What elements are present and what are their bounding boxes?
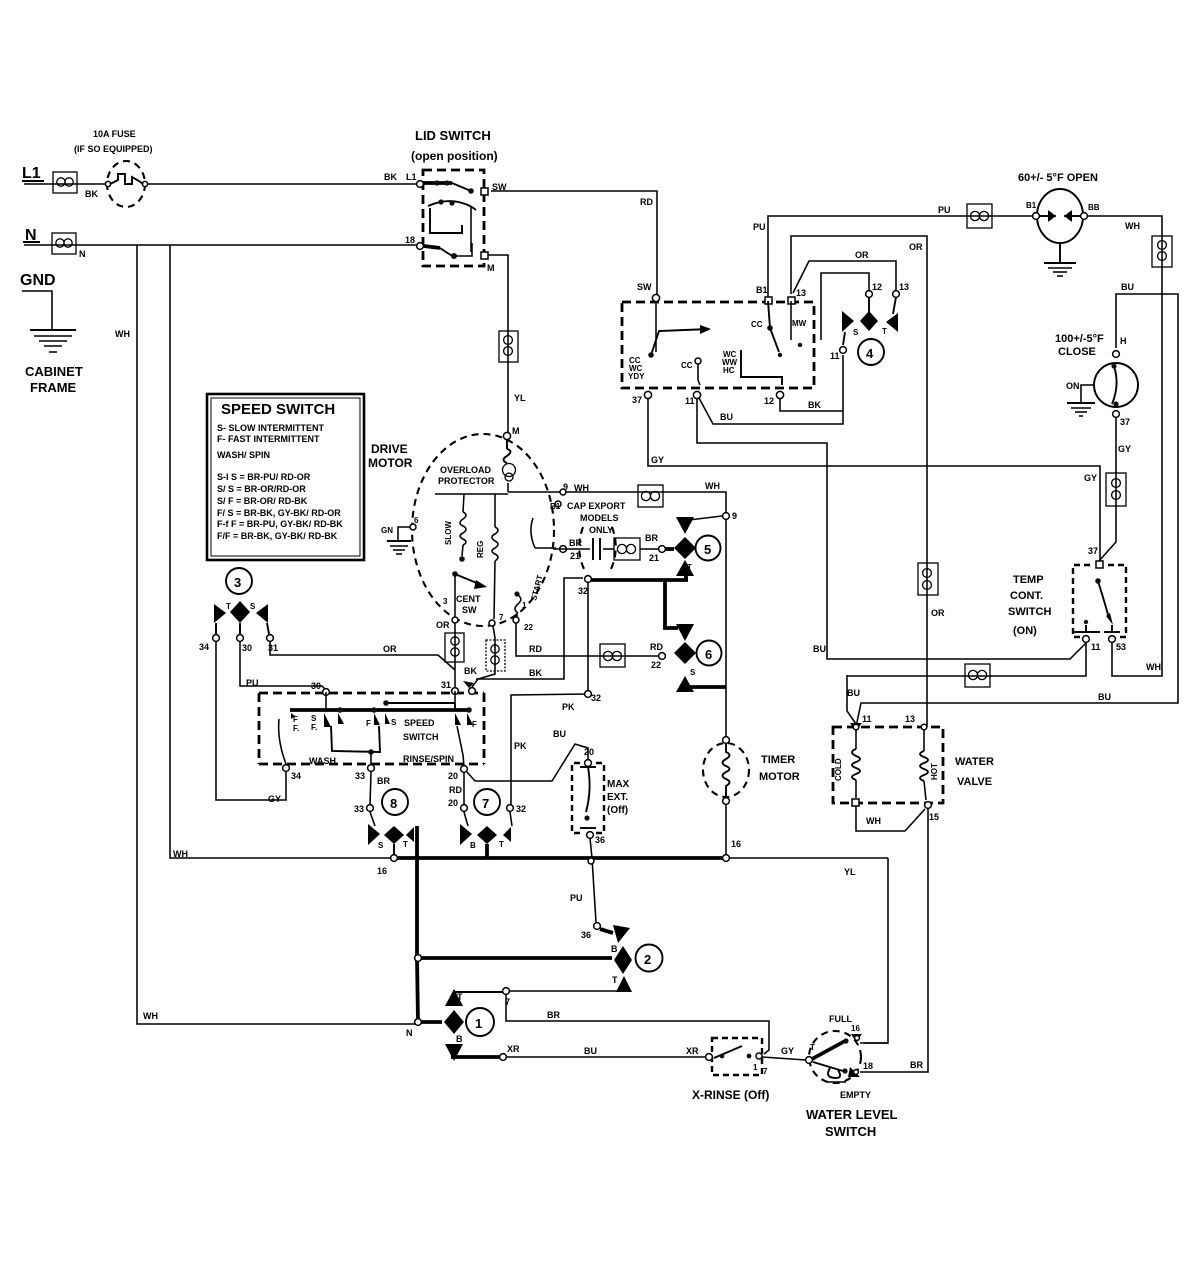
water valve cold coil	[834, 730, 860, 798]
node 22 at cluster 6	[659, 653, 666, 660]
drive motor winding bus	[435, 493, 508, 495]
svg-text:20: 20	[584, 747, 594, 757]
node 20 speed switch	[448, 766, 467, 781]
svg-text:7: 7	[482, 796, 489, 811]
wire OR motor to speed switch 31	[454, 623, 456, 690]
drive motor ground and terminal 6	[381, 516, 419, 554]
svg-text:SWITCH: SWITCH	[1008, 606, 1051, 618]
svg-text:F-f F = BR-PU, GY-BK/ RD-BK: F-f F = BR-PU, GY-BK/ RD-BK	[217, 519, 343, 529]
svg-text:SWITCH: SWITCH	[825, 1124, 876, 1139]
svg-text:RD: RD	[650, 642, 663, 652]
speed switch legend box	[207, 394, 364, 560]
node 34 speed switch	[283, 765, 301, 781]
svg-text:13: 13	[905, 714, 915, 724]
svg-text:SW: SW	[462, 605, 477, 615]
node 32b on PK wire	[585, 691, 592, 698]
svg-text:SWITCH: SWITCH	[403, 732, 439, 742]
svg-text:WASH: WASH	[309, 756, 336, 766]
svg-text:BR: BR	[547, 1010, 560, 1020]
svg-text:11: 11	[685, 396, 695, 406]
svg-text:LID SWITCH: LID SWITCH	[415, 128, 491, 143]
water valve bottom terminals	[852, 799, 939, 822]
svg-text:WH: WH	[115, 329, 130, 339]
terminal SW timer switch	[637, 282, 660, 302]
svg-text:(ON): (ON)	[1013, 625, 1037, 637]
fuse 10A (dashed circle)	[74, 129, 153, 207]
node F speed switch	[463, 681, 475, 694]
water valve enclosure (dashed)	[833, 727, 943, 803]
svg-text:7: 7	[499, 613, 504, 622]
svg-text:MW: MW	[792, 319, 807, 328]
svg-text:6: 6	[705, 647, 712, 662]
svg-text:CONT.: CONT.	[1010, 590, 1043, 602]
thermostat 60F OPEN	[1018, 172, 1100, 243]
node 9 on WH wire	[560, 489, 566, 495]
node L1	[22, 165, 44, 182]
label circled 6	[697, 641, 722, 666]
wire GY 100F to temp switch	[1084, 418, 1131, 561]
svg-text:13: 13	[899, 282, 909, 292]
node 13 cluster 4	[893, 282, 909, 297]
svg-text:S: S	[250, 602, 256, 611]
speed switch enclosure (dashed)	[259, 693, 484, 764]
node 20b	[461, 805, 468, 826]
lid switch label	[411, 128, 498, 163]
wire BK from terminal 12	[780, 399, 843, 411]
wire WH left vertical	[115, 245, 418, 1024]
svg-text:BK: BK	[464, 666, 477, 676]
node 32 thick link	[578, 574, 688, 628]
svg-text:PU: PU	[753, 222, 766, 232]
svg-text:6: 6	[414, 516, 419, 525]
wire BR 33 down	[354, 772, 390, 814]
svg-text:ONLY: ONLY	[589, 525, 613, 535]
wire OR from terminal 13 up over to water valve	[791, 236, 945, 727]
svg-text:S: S	[683, 523, 689, 532]
svg-text:L1: L1	[22, 165, 41, 182]
svg-text:WASH/ SPIN: WASH/ SPIN	[217, 450, 270, 460]
svg-text:BU: BU	[553, 729, 566, 739]
svg-text:T: T	[612, 975, 618, 985]
svg-text:32: 32	[591, 693, 601, 703]
svg-text:CC: CC	[751, 320, 763, 329]
svg-text:GND: GND	[20, 272, 56, 289]
connector cluster 2	[600, 925, 632, 992]
svg-text:SLOW: SLOW	[444, 521, 453, 545]
bus WH thick	[394, 856, 888, 860]
svg-text:OR: OR	[855, 250, 869, 260]
wire BU water valve 11 branch	[847, 675, 860, 724]
wire PK node 32 down to cluster 7	[511, 583, 601, 808]
svg-text:30: 30	[242, 643, 252, 653]
svg-text:BK: BK	[85, 189, 98, 199]
svg-text:18: 18	[863, 1061, 873, 1071]
svg-text:3: 3	[443, 597, 448, 606]
wire GY x-rinse to water level switch	[762, 1046, 806, 1060]
wire PU from timer switch B1 to thermostat	[753, 205, 1033, 297]
node 33 speed switch	[355, 765, 374, 781]
ground GND cabinet frame	[20, 272, 83, 395]
terminal 13 timer switch	[788, 288, 806, 304]
svg-text:T: T	[882, 327, 887, 336]
svg-text:T: T	[457, 992, 463, 1002]
svg-text:33: 33	[355, 771, 365, 781]
svg-text:37: 37	[1088, 546, 1098, 556]
svg-text:1: 1	[475, 1016, 482, 1031]
temp control switch enclosure	[1073, 565, 1126, 637]
svg-text:GY: GY	[781, 1046, 794, 1056]
connector cluster 7	[460, 824, 511, 858]
connector cluster 6	[674, 624, 696, 692]
junction node 16 left	[377, 855, 397, 876]
svg-text:MODELS: MODELS	[580, 513, 619, 523]
overload protector	[438, 440, 516, 492]
node 9 right (to cluster 5)	[723, 511, 737, 521]
svg-text:34: 34	[199, 642, 209, 652]
wire XR from cluster 1 B	[451, 1044, 706, 1060]
drive motor cent sw	[443, 571, 487, 617]
node 11 cluster 4	[830, 347, 846, 361]
connector cluster 5	[674, 516, 722, 576]
svg-text:16: 16	[731, 839, 741, 849]
svg-text:HOT: HOT	[930, 763, 939, 780]
svg-text:B: B	[456, 1034, 463, 1044]
temp control switch label	[1008, 574, 1051, 637]
svg-text:22: 22	[651, 660, 661, 670]
label circled 3	[226, 568, 252, 594]
connector on OR wire	[918, 563, 938, 595]
svg-text:B1: B1	[756, 285, 768, 295]
wire BU terminal 11 loop to node 11	[699, 355, 843, 424]
svg-text:S: S	[690, 668, 696, 677]
svg-text:COLD: COLD	[834, 758, 843, 781]
wire BR water valve 15 to water level switch	[860, 808, 928, 1072]
svg-text:FRAME: FRAME	[30, 380, 77, 395]
wire YL bus to water level switch	[844, 858, 888, 1043]
wire BU right loop to water valve	[856, 282, 1178, 727]
drive motor slow winding	[444, 494, 466, 562]
water level switch	[806, 1014, 898, 1139]
svg-text:B: B	[470, 841, 476, 850]
svg-text:OR: OR	[383, 644, 397, 654]
svg-text:100+/-5°F: 100+/-5°F	[1055, 333, 1104, 345]
wire BU 20 to max ext	[467, 729, 588, 781]
svg-text:FULL: FULL	[829, 1014, 852, 1024]
svg-text:WH: WH	[1146, 662, 1161, 672]
svg-text:OR: OR	[909, 242, 923, 252]
svg-text:T: T	[683, 629, 688, 638]
svg-text:12: 12	[872, 282, 882, 292]
connector cluster 8	[368, 824, 414, 857]
water valve terminal 11	[850, 714, 872, 731]
junction node 16 timer	[723, 839, 741, 861]
wire N white	[24, 245, 418, 259]
svg-text:3: 3	[234, 575, 241, 590]
svg-text:15: 15	[929, 812, 939, 822]
svg-text:2: 2	[644, 952, 651, 967]
svg-text:F.: F.	[311, 723, 317, 732]
speed switch wash blade	[279, 719, 464, 766]
svg-text:CENT: CENT	[456, 594, 481, 604]
svg-text:TIMER: TIMER	[761, 754, 795, 766]
svg-text:PK: PK	[562, 702, 575, 712]
svg-text:CAP EXPORT: CAP EXPORT	[567, 501, 626, 511]
svg-text:32: 32	[516, 804, 526, 814]
connector on PU wire	[967, 204, 992, 228]
svg-text:T: T	[499, 840, 504, 849]
thermostat 100F CLOSE	[1055, 333, 1138, 427]
svg-text:36: 36	[581, 930, 591, 940]
svg-text:ON: ON	[1066, 381, 1080, 391]
terminal 11 timer switch	[685, 391, 701, 406]
wire GY 34 loop	[216, 641, 286, 804]
node N	[23, 227, 40, 244]
svg-text:OVERLOAD: OVERLOAD	[440, 465, 492, 475]
wire temp switch 11 to water valve 11	[847, 643, 1086, 676]
terminal 12 timer switch	[764, 391, 784, 406]
wire RD motor 22 to cluster 6	[516, 623, 663, 670]
svg-text:F: F	[366, 719, 371, 728]
label circled 4	[858, 339, 884, 365]
cap export label	[567, 501, 626, 535]
node 36 max ext	[587, 832, 605, 845]
svg-text:34: 34	[291, 771, 301, 781]
svg-text:OR: OR	[436, 620, 450, 630]
svg-text:F/F = BR-BK, GY-BK/ RD-BK: F/F = BR-BK, GY-BK/ RD-BK	[217, 531, 338, 541]
svg-text:1: 1	[522, 601, 527, 610]
svg-text:8: 8	[390, 796, 397, 811]
svg-text:BU: BU	[813, 644, 826, 654]
terminal B1 timer switch	[756, 285, 772, 304]
label circled 8	[382, 789, 408, 815]
svg-text:GY: GY	[1118, 444, 1131, 454]
svg-text:11: 11	[862, 714, 872, 724]
connector on capacitor wire	[614, 533, 659, 563]
drive motor terminal B1	[550, 501, 561, 511]
wire PU 30 to speed switch	[240, 641, 326, 690]
svg-text:SPEED: SPEED	[404, 718, 435, 728]
wire PU max ext to cluster 2	[570, 838, 596, 922]
wire L1 black	[24, 172, 418, 184]
wire terminal 11 down to BU line	[697, 399, 1086, 659]
node 31 cluster 3	[267, 635, 278, 653]
wire RD 20 down	[448, 773, 464, 808]
connector on BK motor wire (dotted)	[486, 640, 505, 671]
node 21 at cluster 5	[659, 546, 674, 553]
svg-text:L1: L1	[406, 172, 417, 182]
wire GY from timer switch 37	[648, 399, 1100, 561]
timer main switch enclosure (dashed)	[622, 302, 814, 388]
drive motor enclosure (dashed ellipse)	[412, 434, 554, 626]
x-rinse label	[692, 1088, 769, 1102]
svg-text:22: 22	[524, 623, 533, 632]
svg-text:4: 4	[866, 346, 874, 361]
svg-text:SW: SW	[637, 282, 652, 292]
max ext switch contacts	[580, 747, 596, 828]
svg-text:F- FAST INTERMITTENT: F- FAST INTERMITTENT	[217, 434, 320, 444]
lid switch contacts	[405, 180, 507, 273]
node 36 cluster 2	[581, 923, 600, 940]
svg-text:VALVE: VALVE	[957, 776, 992, 788]
svg-text:PU: PU	[570, 893, 583, 903]
wire WH water valve loop	[856, 806, 925, 831]
speed switch common bar	[290, 691, 472, 713]
svg-text:PROTECTOR: PROTECTOR	[438, 476, 495, 486]
svg-text:CC: CC	[681, 361, 693, 370]
wire thick node N to cluster 2	[415, 955, 612, 962]
svg-text:1: 1	[753, 1063, 758, 1072]
svg-text:WH: WH	[173, 849, 188, 859]
svg-text:9: 9	[732, 511, 737, 521]
svg-text:START: START	[529, 574, 544, 602]
svg-text:WH: WH	[705, 481, 720, 491]
svg-text:BU: BU	[720, 412, 733, 422]
svg-text:BB: BB	[1088, 203, 1100, 212]
wire thick cluster 8 T to node N	[417, 826, 418, 1022]
wire YL water level 16	[860, 1042, 888, 1044]
connector cluster 1	[444, 989, 464, 1061]
svg-text:T: T	[810, 1043, 815, 1052]
connector on WH wire	[638, 485, 663, 507]
water valve terminal 13	[905, 714, 927, 730]
svg-text:BK: BK	[384, 172, 397, 182]
connector on GY wire	[1106, 473, 1126, 506]
ground at 100F thermostat (ON)	[1066, 381, 1095, 416]
svg-text:BK: BK	[808, 400, 821, 410]
label circled 1	[466, 1008, 494, 1036]
wire RD lid switch to timer switch SW	[491, 191, 657, 294]
wire T1 to T junction	[454, 991, 503, 993]
drive motor bottom terminals	[436, 613, 533, 632]
svg-text:13: 13	[796, 288, 806, 298]
svg-text:RD: RD	[640, 197, 653, 207]
label circled 2	[636, 945, 663, 972]
svg-text:S/ F = BR-OR/ RD-BK: S/ F = BR-OR/ RD-BK	[217, 496, 308, 506]
svg-text:(IF SO EQUIPPED): (IF SO EQUIPPED)	[74, 144, 153, 154]
svg-text:S-I S = BR-PU/ RD-OR: S-I S = BR-PU/ RD-OR	[217, 472, 311, 482]
wire BK to node 32	[476, 578, 583, 679]
node 33b	[367, 805, 375, 826]
svg-text:GY: GY	[268, 794, 281, 804]
drive motor label	[368, 442, 413, 470]
svg-text:21: 21	[649, 553, 659, 563]
wire WH thermostat to right edge down	[1087, 216, 1162, 676]
svg-text:7: 7	[763, 1067, 768, 1076]
svg-text:WATER LEVEL: WATER LEVEL	[806, 1107, 898, 1122]
max ext switch enclosure	[572, 763, 604, 833]
svg-text:16: 16	[377, 866, 387, 876]
wire OR 31 to speed switch	[270, 641, 455, 670]
wire BR junction to x-rinse	[506, 994, 769, 1054]
svg-text:RD: RD	[529, 644, 542, 654]
x-rinse switch enclosure	[712, 1038, 762, 1075]
connector on RD wire	[600, 644, 625, 667]
svg-text:53: 53	[1116, 642, 1126, 652]
node 34 cluster 3	[199, 635, 219, 652]
svg-text:20: 20	[448, 771, 458, 781]
svg-text:36: 36	[595, 835, 605, 845]
svg-text:WATER: WATER	[955, 756, 994, 768]
svg-text:S: S	[391, 718, 397, 727]
svg-text:10A FUSE: 10A FUSE	[93, 129, 136, 139]
svg-text:5: 5	[704, 542, 711, 557]
svg-text:CABINET: CABINET	[25, 364, 83, 379]
speed switch poles and labels	[291, 713, 477, 742]
svg-text:MOTOR: MOTOR	[368, 456, 413, 470]
svg-text:11: 11	[1091, 642, 1101, 652]
svg-text:MOTOR: MOTOR	[759, 771, 800, 783]
svg-text:B1: B1	[550, 502, 561, 511]
svg-text:S- SLOW INTERMITTENT: S- SLOW INTERMITTENT	[217, 423, 324, 433]
svg-text:H: H	[1120, 336, 1127, 346]
drive motor start winding	[514, 518, 556, 617]
svg-text:X-RINSE (Off): X-RINSE (Off)	[692, 1088, 769, 1102]
svg-text:21: 21	[570, 551, 580, 561]
svg-text:OR: OR	[931, 608, 945, 618]
wire BK motor 7 to speed switch F	[464, 626, 495, 687]
svg-text:M: M	[487, 263, 495, 273]
svg-text:WH: WH	[1125, 221, 1140, 231]
node 32 cluster 7	[507, 804, 526, 826]
svg-text:BR: BR	[645, 533, 658, 543]
svg-text:60+/- 5°F OPEN: 60+/- 5°F OPEN	[1018, 172, 1098, 184]
svg-text:BU: BU	[1098, 692, 1111, 702]
svg-text:S/ S = BR-OR/RD-OR: S/ S = BR-OR/RD-OR	[217, 484, 306, 494]
svg-text:(Off): (Off)	[607, 805, 628, 816]
svg-text:BK: BK	[529, 668, 542, 678]
x-rinse switch	[706, 1046, 768, 1076]
node 30 cluster 3	[237, 635, 252, 653]
svg-text:PK: PK	[514, 741, 527, 751]
svg-text:HC: HC	[723, 366, 735, 375]
svg-text:33: 33	[354, 804, 364, 814]
wire WH second vertical to bus	[170, 245, 394, 859]
capacitor with dashed outline	[553, 527, 616, 569]
max ext switch label	[607, 779, 630, 816]
svg-text:RD: RD	[449, 785, 462, 795]
svg-text:XR: XR	[507, 1044, 520, 1054]
svg-text:F/ S = BR-BK, GY-BK/ RD-OR: F/ S = BR-BK, GY-BK/ RD-OR	[217, 508, 341, 518]
svg-text:YL: YL	[844, 867, 856, 877]
svg-text:B1: B1	[1026, 201, 1037, 210]
svg-text:F.: F.	[293, 724, 299, 733]
svg-text:N: N	[406, 1028, 413, 1038]
svg-text:M: M	[512, 426, 520, 436]
junction node on bus (PU tap)	[588, 858, 594, 864]
svg-text:PU: PU	[938, 205, 951, 215]
svg-text:BR: BR	[377, 776, 390, 786]
svg-text:MAX: MAX	[607, 779, 630, 790]
svg-text:WH: WH	[143, 1011, 158, 1021]
svg-text:GN: GN	[381, 526, 393, 535]
connector on temp 11 wire	[965, 664, 990, 687]
wire T cluster 2 to junction 7	[503, 988, 624, 1007]
svg-text:EMPTY: EMPTY	[840, 1090, 871, 1100]
svg-text:BR: BR	[910, 1060, 923, 1070]
connector on L1 wire	[53, 172, 98, 199]
wire WH motor to cluster5 area	[508, 481, 726, 739]
svg-text:20: 20	[448, 798, 458, 808]
water valve hot coil	[920, 730, 939, 800]
water valve label	[955, 756, 994, 788]
svg-text:GY: GY	[651, 455, 664, 465]
svg-text:T: T	[403, 840, 408, 849]
svg-text:37: 37	[632, 395, 642, 405]
connector on YL wire	[499, 331, 518, 362]
drive motor reg winding	[476, 494, 498, 619]
timer motor	[703, 737, 800, 855]
wire OR inner to node 13 of cluster 4	[793, 250, 896, 293]
